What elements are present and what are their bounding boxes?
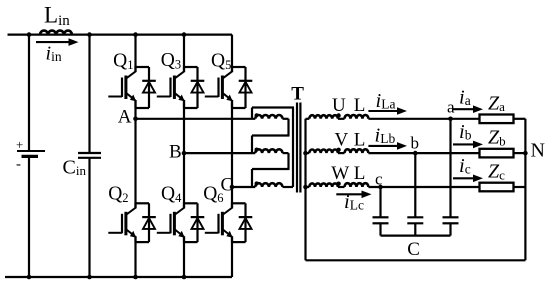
svg-text:Za: Za	[488, 92, 505, 114]
svg-text:B: B	[169, 142, 182, 163]
svg-text:a: a	[447, 98, 455, 117]
wire Q2 emitter wire	[136, 241, 150, 243]
svg-text:A: A	[118, 106, 132, 127]
diode D2 (antiparallel)	[142, 203, 156, 242]
svg-text:C: C	[407, 239, 420, 260]
wire row B to primary	[184, 152, 255, 154]
svg-text:T: T	[291, 84, 304, 105]
svg-text:+: +	[16, 137, 23, 152]
node B	[182, 151, 187, 156]
diode D3 (antiparallel)	[191, 67, 205, 108]
wire phase leg A vertical segments	[134, 35, 136, 277]
svg-text:Q1: Q1	[113, 50, 133, 72]
svg-text:Lin: Lin	[44, 3, 70, 30]
svg-text:Zb: Zb	[488, 127, 506, 149]
wire delta link B-C	[252, 153, 290, 187]
battery (DC source)	[17, 35, 45, 277]
wire row c	[368, 186, 479, 188]
wire Q1 collector branch	[136, 66, 150, 68]
wire top DC rail	[8, 33, 233, 35]
arrow i_in	[36, 41, 70, 43]
capacitor C filter b	[407, 153, 423, 236]
svg-text:-: -	[16, 157, 21, 173]
svg-text:iLb: iLb	[375, 124, 396, 146]
transistor Q3	[157, 66, 185, 108]
svg-text:W: W	[331, 163, 349, 184]
transformer primary winding BC	[255, 148, 289, 154]
node c	[378, 185, 383, 190]
svg-text:Q2: Q2	[108, 183, 128, 205]
wire Q4 collector branch	[184, 202, 198, 204]
transformer primary winding AB	[255, 113, 289, 119]
wire Zc to N bus	[514, 186, 526, 188]
wire Q5 collector branch	[232, 66, 246, 68]
wire phase leg B vertical segments	[183, 35, 185, 277]
wire row A to primary	[136, 118, 256, 120]
wire Q3 emitter wire	[184, 107, 198, 109]
svg-text:Q4: Q4	[161, 183, 182, 205]
transistor Q2	[108, 202, 136, 242]
svg-text:c: c	[375, 169, 383, 188]
svg-text:Q5: Q5	[211, 50, 231, 72]
transformer secondary winding U	[306, 113, 341, 119]
svg-text:N: N	[531, 139, 545, 161]
transistor Q5	[205, 66, 233, 108]
wire delta link A-B	[252, 119, 290, 153]
transistor Q4	[157, 202, 185, 242]
wire N bus vertical	[524, 119, 526, 260]
wire Q5 emitter wire	[232, 107, 246, 109]
wire Q1 emitter wire	[136, 107, 150, 109]
inductor L phase u	[338, 115, 369, 119]
arrow i_Lc	[336, 193, 362, 195]
wire capacitor bank common rail	[381, 235, 451, 237]
resistor Za (load impedance)	[480, 115, 514, 124]
wire Zb to N bus	[514, 152, 526, 154]
svg-text:Q3: Q3	[161, 50, 181, 72]
node a	[448, 117, 453, 122]
svg-text:b: b	[411, 134, 420, 153]
inductor L phase v	[338, 149, 369, 153]
inductor L phase w	[338, 183, 369, 187]
wire phase leg C vertical segments	[231, 35, 233, 277]
capacitor Cin	[78, 35, 101, 277]
node C	[230, 185, 235, 190]
wire bottom DC rail	[5, 276, 232, 278]
svg-text:L: L	[354, 163, 366, 184]
wire neutral return rail	[306, 259, 526, 261]
transformer secondary winding V	[306, 148, 341, 154]
node top rail junctions	[27, 32, 187, 37]
node N	[523, 151, 528, 156]
resistor Zb (load impedance)	[480, 149, 514, 158]
node A	[133, 117, 138, 122]
diode D1 (antiparallel)	[142, 67, 156, 108]
wire row b	[368, 152, 479, 154]
node b	[413, 151, 418, 156]
svg-text:ib: ib	[459, 121, 472, 143]
wire Za to N bus	[514, 118, 526, 120]
wire secondary star point vertical	[304, 119, 306, 260]
svg-text:ia: ia	[459, 87, 471, 109]
svg-text:Zc: Zc	[488, 161, 505, 183]
svg-text:L: L	[354, 130, 366, 151]
wire delta top return (CA)	[252, 108, 294, 188]
transformer T core	[297, 103, 300, 193]
svg-text:ic: ic	[459, 155, 471, 177]
wire Q6 collector branch	[232, 202, 246, 204]
wire Q6 emitter wire	[232, 241, 246, 243]
arrow i_La	[368, 110, 398, 112]
arrow i_c	[453, 177, 474, 179]
wire Q4 emitter wire	[184, 241, 198, 243]
diode D5 (antiparallel)	[239, 67, 253, 108]
svg-text:U: U	[332, 95, 346, 116]
arrow i_b	[453, 143, 474, 145]
svg-text:Cin: Cin	[63, 157, 87, 179]
inductor Lin	[40, 31, 72, 35]
diode D6 (antiparallel)	[239, 203, 253, 242]
svg-text:iin: iin	[46, 43, 62, 65]
transistor Q6	[205, 202, 233, 242]
svg-text:C: C	[221, 175, 234, 196]
wire Q2 collector branch	[136, 202, 150, 204]
wire Q3 collector branch	[184, 66, 198, 68]
svg-text:L: L	[354, 95, 366, 116]
arrow i_a	[453, 108, 474, 110]
transformer secondary winding W	[306, 182, 341, 188]
diode D4 (antiparallel)	[191, 203, 205, 242]
node secondary W junction	[303, 185, 308, 190]
svg-text:V: V	[335, 130, 349, 151]
wire row C to primary	[232, 186, 255, 188]
node bottom rail junctions	[27, 275, 187, 280]
transformer primary winding CA	[255, 181, 294, 187]
capacitor C filter a	[443, 119, 459, 236]
svg-text:iLa: iLa	[376, 90, 396, 112]
node secondary V junction	[303, 151, 308, 156]
resistor Zc (load impedance)	[480, 183, 514, 192]
transistor Q1	[108, 66, 136, 108]
capacitor C filter c	[373, 187, 389, 236]
wire row a	[368, 118, 479, 120]
arrow i_Lb	[368, 145, 398, 147]
